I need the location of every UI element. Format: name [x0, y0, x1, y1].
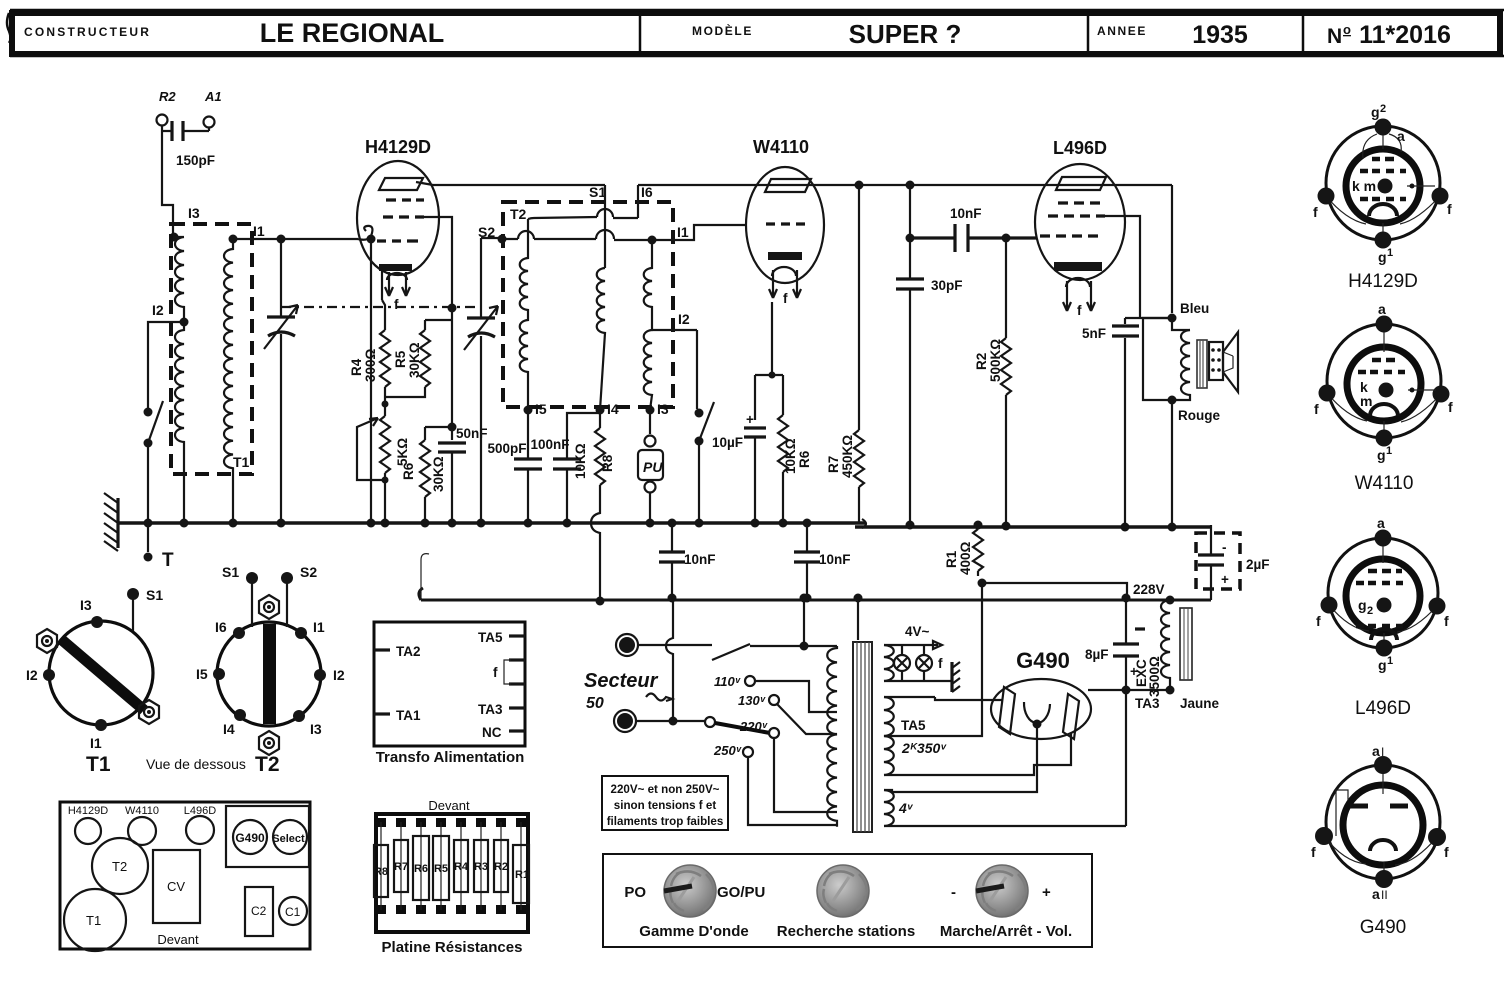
pilot lamps: [894, 645, 960, 692]
junction dots on bus: [180, 519, 376, 528]
label Secteur: [584, 670, 672, 712]
transfo alimentation box: [374, 622, 525, 766]
svg-text:I3: I3: [188, 205, 200, 221]
svg-text:R1: R1: [515, 869, 529, 881]
svg-text:R6: R6: [797, 450, 812, 468]
variable capacitor CV2: [464, 238, 502, 528]
tube L496D electrodes: [1040, 177, 1106, 318]
knob panel box: [603, 854, 1092, 947]
ground bus wire: [118, 521, 866, 525]
svg-text:1: 1: [1387, 655, 1393, 667]
transformer T2 dashed box: [503, 202, 673, 407]
svg-text:GO/PU: GO/PU: [717, 884, 765, 901]
svg-text:g: g: [1358, 597, 1367, 613]
svg-text:N: N: [1327, 25, 1342, 48]
wire I2 to wave switch: [148, 322, 184, 411]
secondary 4V winding: [884, 790, 914, 826]
svg-text:f: f: [493, 665, 498, 680]
svg-text:ANNEE: ANNEE: [1097, 24, 1147, 38]
terminal A1: [204, 89, 222, 128]
tap 110V: [714, 674, 837, 712]
svg-text:Platine Résistances: Platine Résistances: [382, 939, 523, 956]
svg-text:4V~: 4V~: [905, 624, 930, 639]
svg-text:Rouge: Rouge: [1178, 408, 1220, 423]
variable capacitor CV1: [264, 235, 298, 524]
svg-text:I1: I1: [677, 224, 689, 240]
wire anode to top rail: [416, 182, 1172, 185]
capacitor 30pF: [896, 238, 963, 530]
T2 mounting bolts: [259, 595, 279, 755]
svg-text:G490: G490: [1016, 648, 1070, 673]
svg-text:R5: R5: [393, 350, 408, 368]
svg-text:NC: NC: [482, 725, 502, 740]
wire 4V bottom rail: [884, 825, 1126, 827]
svg-text:R4: R4: [454, 861, 469, 873]
svg-text:f: f: [783, 291, 788, 306]
terminal T: [144, 519, 175, 572]
svg-text:SUPER ?: SUPER ?: [849, 19, 962, 49]
svg-text:R2: R2: [494, 861, 508, 873]
svg-text:8µF: 8µF: [1085, 647, 1109, 662]
svg-text:30KΩ: 30KΩ: [431, 456, 446, 492]
T1 coil underside view: [26, 587, 163, 776]
capacitor 500pF: [487, 410, 542, 528]
socket L496D: [1316, 515, 1449, 719]
node I1: [229, 223, 265, 244]
wire drop to switch line: [800, 594, 809, 651]
svg-text:Jaune: Jaune: [1180, 696, 1220, 711]
coil T1 primary upper: [174, 237, 184, 322]
svg-text:R7: R7: [826, 456, 841, 473]
tap 130V: [738, 693, 837, 734]
platine resistances: [376, 798, 528, 956]
resistor R2 500K: [974, 234, 1011, 531]
svg-text:I2: I2: [333, 667, 345, 683]
svg-text:a: a: [1377, 515, 1385, 531]
field coil EXC 3500ohm: [1134, 596, 1192, 698]
chassis layout box: [60, 802, 310, 951]
svg-text:100nF: 100nF: [530, 437, 569, 452]
wire HT bottom to G490 plate2: [884, 733, 1071, 775]
svg-text:5nF: 5nF: [1082, 326, 1106, 341]
wire I1 to grid H4129D: [237, 238, 358, 240]
svg-text:TA1: TA1: [396, 708, 421, 723]
svg-text:300Ω: 300Ω: [363, 348, 378, 382]
svg-text:a: a: [1397, 128, 1405, 144]
svg-text:m: m: [1360, 393, 1372, 409]
svg-text:-: -: [951, 884, 956, 901]
output transformer core: [1197, 340, 1207, 388]
svg-text:T1: T1: [86, 913, 101, 928]
resistor R5 30K: [385, 320, 430, 397]
knob Gamme D'onde: [624, 865, 765, 940]
svg-text:f: f: [1316, 613, 1321, 629]
svg-text:+: +: [1221, 572, 1229, 587]
speaker: [1209, 332, 1238, 392]
svg-text:I3: I3: [310, 721, 322, 737]
svg-text:Devant: Devant: [428, 798, 470, 813]
svg-text:f: f: [938, 656, 943, 671]
svg-text:T2: T2: [112, 859, 127, 874]
svg-text:H4129D: H4129D: [1348, 271, 1418, 292]
knob Recherche stations: [777, 865, 915, 940]
svg-text:a: a: [1372, 886, 1380, 902]
node AVC: [424, 217, 457, 440]
wire HT top to G490 plate1: [884, 697, 1002, 700]
svg-text:I6: I6: [641, 184, 653, 200]
svg-text:LE REGIONAL: LE REGIONAL: [260, 18, 445, 48]
svg-text:S2: S2: [478, 224, 495, 240]
svg-text:2: 2: [1367, 605, 1373, 617]
svg-text:I1: I1: [90, 735, 102, 751]
svg-text:a: a: [1372, 743, 1380, 759]
svg-text:k m: k m: [1352, 178, 1376, 194]
wire S2 riser: [528, 209, 638, 219]
mechanical gang dash line: [281, 306, 481, 308]
tube H4129D envelope: [357, 137, 439, 275]
node I3: [170, 205, 200, 242]
wire W4110 cathode: [755, 302, 783, 420]
socket H4129D: [1313, 103, 1452, 292]
svg-text:-: -: [1222, 540, 1227, 555]
terminal R2: [157, 89, 177, 126]
svg-text:10nF: 10nF: [950, 206, 982, 221]
svg-text:sinon tensions f et: sinon tensions f et: [614, 799, 717, 812]
wire S2 to I1b: [502, 225, 745, 240]
label Vue de dessous: [146, 756, 246, 772]
secondary HT winding: [884, 697, 894, 775]
svg-text:f: f: [1077, 303, 1082, 318]
wire 4V top to cathode: [884, 724, 1037, 792]
capacitor 10uF: [712, 412, 766, 528]
svg-text:220ᵛ: 220ᵛ: [739, 719, 768, 734]
svg-text:Secteur: Secteur: [584, 670, 659, 692]
tube G490 electrodes: [999, 687, 1079, 739]
node S1 line: [589, 184, 606, 268]
line 228V: [419, 582, 1211, 600]
node I4: [596, 401, 619, 417]
svg-text:Devant: Devant: [157, 932, 199, 947]
svg-text:T2: T2: [255, 753, 280, 776]
svg-text:CV: CV: [167, 879, 185, 894]
svg-text:I6: I6: [215, 619, 227, 635]
coil T2 C: [644, 240, 652, 410]
svg-text:Marche/Arrêt - Vol.: Marche/Arrêt - Vol.: [940, 923, 1072, 940]
platine resistors: [374, 818, 529, 914]
svg-text:10KΩ: 10KΩ: [573, 443, 588, 479]
wire I2b to PU switch: [696, 330, 698, 409]
transformer primary coil: [827, 646, 837, 827]
svg-text:R2: R2: [159, 89, 176, 104]
svg-text:Bleu: Bleu: [1180, 301, 1209, 316]
svg-text:30pF: 30pF: [931, 278, 963, 293]
svg-text:2µF: 2µF: [1246, 557, 1270, 572]
svg-text:I: I: [1381, 745, 1384, 759]
resistor R6 cathode 10K: [778, 415, 812, 528]
junction dots bus H4129D: [381, 519, 457, 528]
svg-text:1: 1: [1387, 247, 1393, 259]
node TA3: [1088, 686, 1220, 712]
svg-text:W4110: W4110: [125, 805, 159, 817]
svg-text:4ᵛ: 4ᵛ: [898, 800, 914, 816]
capacitor 8uF: [1085, 594, 1145, 691]
svg-text:H4129D: H4129D: [68, 805, 108, 817]
capacitor 150pF antenna: [162, 121, 215, 168]
svg-text:R6: R6: [401, 462, 416, 480]
svg-text:Vue de dessous: Vue de dessous: [146, 756, 246, 772]
capacitor 100nF: [530, 413, 600, 528]
svg-text:220V~ et non 250V~: 220V~ et non 250V~: [611, 783, 720, 796]
svg-text:f: f: [1444, 613, 1449, 629]
T2 coil underside view: [196, 564, 345, 776]
svg-text:f: f: [1444, 844, 1449, 860]
wire antenna down: [162, 131, 173, 234]
svg-text:I2: I2: [678, 311, 690, 327]
node I5: [524, 401, 547, 417]
svg-text:R7: R7: [394, 861, 408, 873]
node I1b: [648, 224, 689, 245]
svg-text:II: II: [1381, 888, 1388, 902]
svg-text:S1: S1: [589, 184, 606, 200]
capacitor 50nF: [438, 423, 488, 524]
svg-text:PU: PU: [643, 459, 663, 475]
knob Marche/Arret: [940, 865, 1072, 940]
coil T1 primary lower: [175, 322, 184, 523]
svg-text:o: o: [1343, 22, 1351, 37]
svg-text:Select.: Select.: [272, 833, 307, 845]
svg-text:R6: R6: [414, 863, 428, 875]
svg-text:30KΩ: 30KΩ: [407, 342, 422, 378]
socket G490: [1311, 743, 1449, 938]
svg-text:T1: T1: [86, 753, 111, 776]
svg-text:2ᴷ350ᵛ: 2ᴷ350ᵛ: [901, 740, 947, 756]
terminal secteur bottom: [614, 710, 636, 732]
wire L496D screen to 5nF: [1105, 216, 1172, 318]
switch PU/radio: [695, 402, 715, 528]
svg-text:I2: I2: [152, 302, 164, 318]
capacitor 10nF coupling: [910, 206, 1036, 252]
B+ bus right: [855, 519, 1211, 528]
svg-text:I3: I3: [80, 597, 92, 613]
svg-text:S1: S1: [222, 564, 239, 580]
node I6: [638, 184, 653, 218]
svg-text:g: g: [1378, 657, 1387, 673]
svg-text:T1: T1: [233, 454, 250, 470]
title block frame: [7, 10, 1504, 56]
svg-text:I5: I5: [196, 666, 208, 682]
svg-text:T: T: [162, 550, 174, 571]
svg-text:W4110: W4110: [753, 137, 809, 157]
svg-text:I4: I4: [223, 721, 235, 737]
svg-text:R8: R8: [600, 454, 615, 472]
wire secteur top to switch: [638, 644, 712, 646]
potentiometer 5K: [357, 401, 410, 524]
svg-text:C2: C2: [251, 904, 267, 918]
svg-text:1935: 1935: [1192, 21, 1248, 49]
wire TA3 down to rail: [1125, 690, 1127, 826]
svg-text:R3: R3: [474, 861, 488, 873]
arrow 4V~: [905, 624, 942, 649]
svg-text:f: f: [1447, 201, 1452, 217]
capacitor 10nF right bypass: [794, 519, 851, 603]
svg-text:+: +: [746, 412, 754, 427]
svg-text:f: f: [1314, 401, 1319, 417]
svg-text:f: f: [1313, 204, 1318, 220]
svg-text:g: g: [1371, 104, 1380, 120]
svg-text:10nF: 10nF: [684, 552, 716, 567]
svg-text:L496D: L496D: [1355, 698, 1411, 719]
wire top rail corner down: [906, 185, 915, 243]
tube G490 envelope: [991, 648, 1091, 739]
node I3b: [646, 401, 669, 417]
svg-text:I5: I5: [535, 401, 547, 417]
svg-text:C1: C1: [285, 905, 301, 919]
svg-text:50nF: 50nF: [456, 426, 488, 441]
selector wiper: [715, 723, 770, 733]
svg-text:I1: I1: [313, 619, 325, 635]
note box 220V: [602, 776, 728, 830]
svg-text:228V: 228V: [1133, 582, 1165, 597]
svg-text:10nF: 10nF: [819, 552, 851, 567]
coil T2 A: [520, 219, 528, 410]
svg-text:TA5: TA5: [478, 630, 503, 645]
svg-text:10KΩ: 10KΩ: [783, 438, 798, 474]
svg-text:R2: R2: [974, 353, 989, 370]
svg-text:A1: A1: [204, 89, 222, 104]
tap 250V: [713, 743, 837, 825]
ground symbol chassis: [104, 493, 118, 551]
svg-text:I3: I3: [657, 401, 669, 417]
svg-text:Recherche stations: Recherche stations: [777, 923, 915, 940]
transformer T1 dashed box: [171, 224, 252, 474]
svg-text:I1: I1: [253, 223, 265, 239]
svg-text:G490: G490: [1360, 917, 1406, 938]
wire L496D anode to Bleu: [906, 181, 1173, 314]
node Rouge: [1168, 396, 1221, 424]
label 2x350V: [901, 740, 947, 756]
switch wave-change: [144, 401, 164, 523]
resistor R1 400ohm: [944, 521, 1127, 599]
svg-text:TA2: TA2: [396, 644, 421, 659]
svg-text:I2: I2: [26, 667, 38, 683]
wire aux down: [367, 235, 376, 524]
svg-text:11*2016: 11*2016: [1359, 21, 1451, 49]
svg-text:filaments trop faibles: filaments trop faibles: [607, 815, 724, 828]
resistor R6 30K: [401, 427, 452, 523]
svg-text:400Ω: 400Ω: [958, 541, 973, 575]
svg-text:110ᵛ: 110ᵛ: [714, 674, 741, 689]
svg-text:a: a: [1378, 301, 1386, 317]
svg-text:G490: G490: [235, 831, 265, 845]
output transformer primary: [1143, 318, 1190, 400]
svg-text:f: f: [394, 297, 399, 312]
svg-text:250ᵛ: 250ᵛ: [713, 743, 742, 758]
resistor R8 10K: [573, 410, 615, 606]
wire Rouge down: [1168, 400, 1177, 532]
svg-text:Gamme D'onde: Gamme D'onde: [639, 923, 748, 940]
svg-text:L496D: L496D: [1053, 138, 1107, 158]
title block text: [24, 18, 1451, 49]
T1 mounting bolts: [37, 629, 159, 724]
svg-text:H4129D: H4129D: [365, 137, 431, 157]
capacitor 10nF left bypass: [659, 519, 716, 603]
svg-text:g: g: [1378, 249, 1387, 265]
svg-text:TA3: TA3: [478, 702, 503, 717]
node S2: [478, 224, 507, 244]
svg-text:I4: I4: [607, 401, 619, 417]
resistor R7 450K: [826, 181, 864, 524]
svg-text:450KΩ: 450KΩ: [840, 435, 855, 478]
svg-text:W4110: W4110: [1355, 473, 1414, 494]
svg-text:130ᵛ: 130ᵛ: [738, 693, 766, 708]
resistor R4 300ohm: [349, 300, 390, 404]
transformer core: [853, 642, 872, 832]
svg-text:2: 2: [1380, 103, 1386, 115]
svg-text:R5: R5: [434, 863, 448, 875]
tube H4129D electrodes: [358, 178, 424, 312]
svg-text:R4: R4: [349, 358, 364, 376]
svg-text:500pF: 500pF: [487, 441, 526, 456]
wire drop core: [854, 594, 863, 641]
svg-text:f: f: [1448, 399, 1453, 415]
svg-text:R8: R8: [374, 866, 388, 878]
jack PU: [638, 410, 663, 528]
svg-text:R1: R1: [944, 550, 959, 568]
tube L496D envelope: [1035, 138, 1125, 280]
svg-text:50: 50: [586, 695, 604, 712]
capacitor 5nF: [1082, 318, 1139, 532]
svg-text:TA5: TA5: [901, 718, 926, 733]
socket W4110: [1314, 301, 1453, 494]
coil T2 B: [597, 268, 605, 410]
svg-text:g: g: [1377, 447, 1386, 463]
tube W4110 envelope: [746, 137, 824, 283]
svg-text:PO: PO: [624, 884, 646, 901]
svg-text:10µF: 10µF: [712, 435, 743, 450]
tap 220V: [739, 719, 837, 812]
wire 228V hook left: [421, 554, 429, 600]
wire secteur bottom: [636, 598, 715, 727]
svg-text:CONSTRUCTEUR: CONSTRUCTEUR: [24, 25, 151, 39]
node I2b tap: [652, 311, 697, 330]
switch mains: [712, 644, 837, 660]
svg-text:f: f: [1311, 844, 1316, 860]
terminal secteur top: [616, 634, 638, 656]
capacitor 2uF dashed box: [1196, 525, 1270, 600]
svg-text:S1: S1: [146, 587, 163, 603]
svg-text:MODÈLE: MODÈLE: [692, 23, 753, 38]
svg-text:5KΩ: 5KΩ: [395, 438, 410, 466]
svg-text:+: +: [1042, 884, 1051, 901]
svg-text:150pF: 150pF: [176, 153, 215, 168]
svg-text:S2: S2: [300, 564, 317, 580]
secondary 4V pilot winding: [884, 645, 952, 681]
wire TA5 centre tap: [884, 579, 987, 737]
svg-text:500KΩ: 500KΩ: [988, 339, 1003, 382]
node I2: [152, 302, 189, 327]
coil T1 secondary: [224, 239, 233, 523]
svg-text:1: 1: [1386, 445, 1392, 457]
tube W4110 electrodes: [765, 179, 811, 306]
svg-text:Transfo Alimentation: Transfo Alimentation: [376, 749, 525, 766]
node Bleu: [1168, 301, 1210, 323]
svg-text:TA3: TA3: [1135, 696, 1160, 711]
svg-text:T2: T2: [510, 206, 527, 222]
